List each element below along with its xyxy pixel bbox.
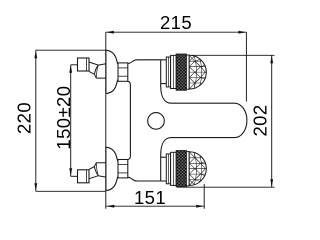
svg-text:215: 215 xyxy=(160,12,192,33)
svg-text:202: 202 xyxy=(250,104,271,136)
svg-text:150±20: 150±20 xyxy=(53,86,74,150)
svg-text:220: 220 xyxy=(14,102,35,134)
svg-text:151: 151 xyxy=(134,187,166,208)
